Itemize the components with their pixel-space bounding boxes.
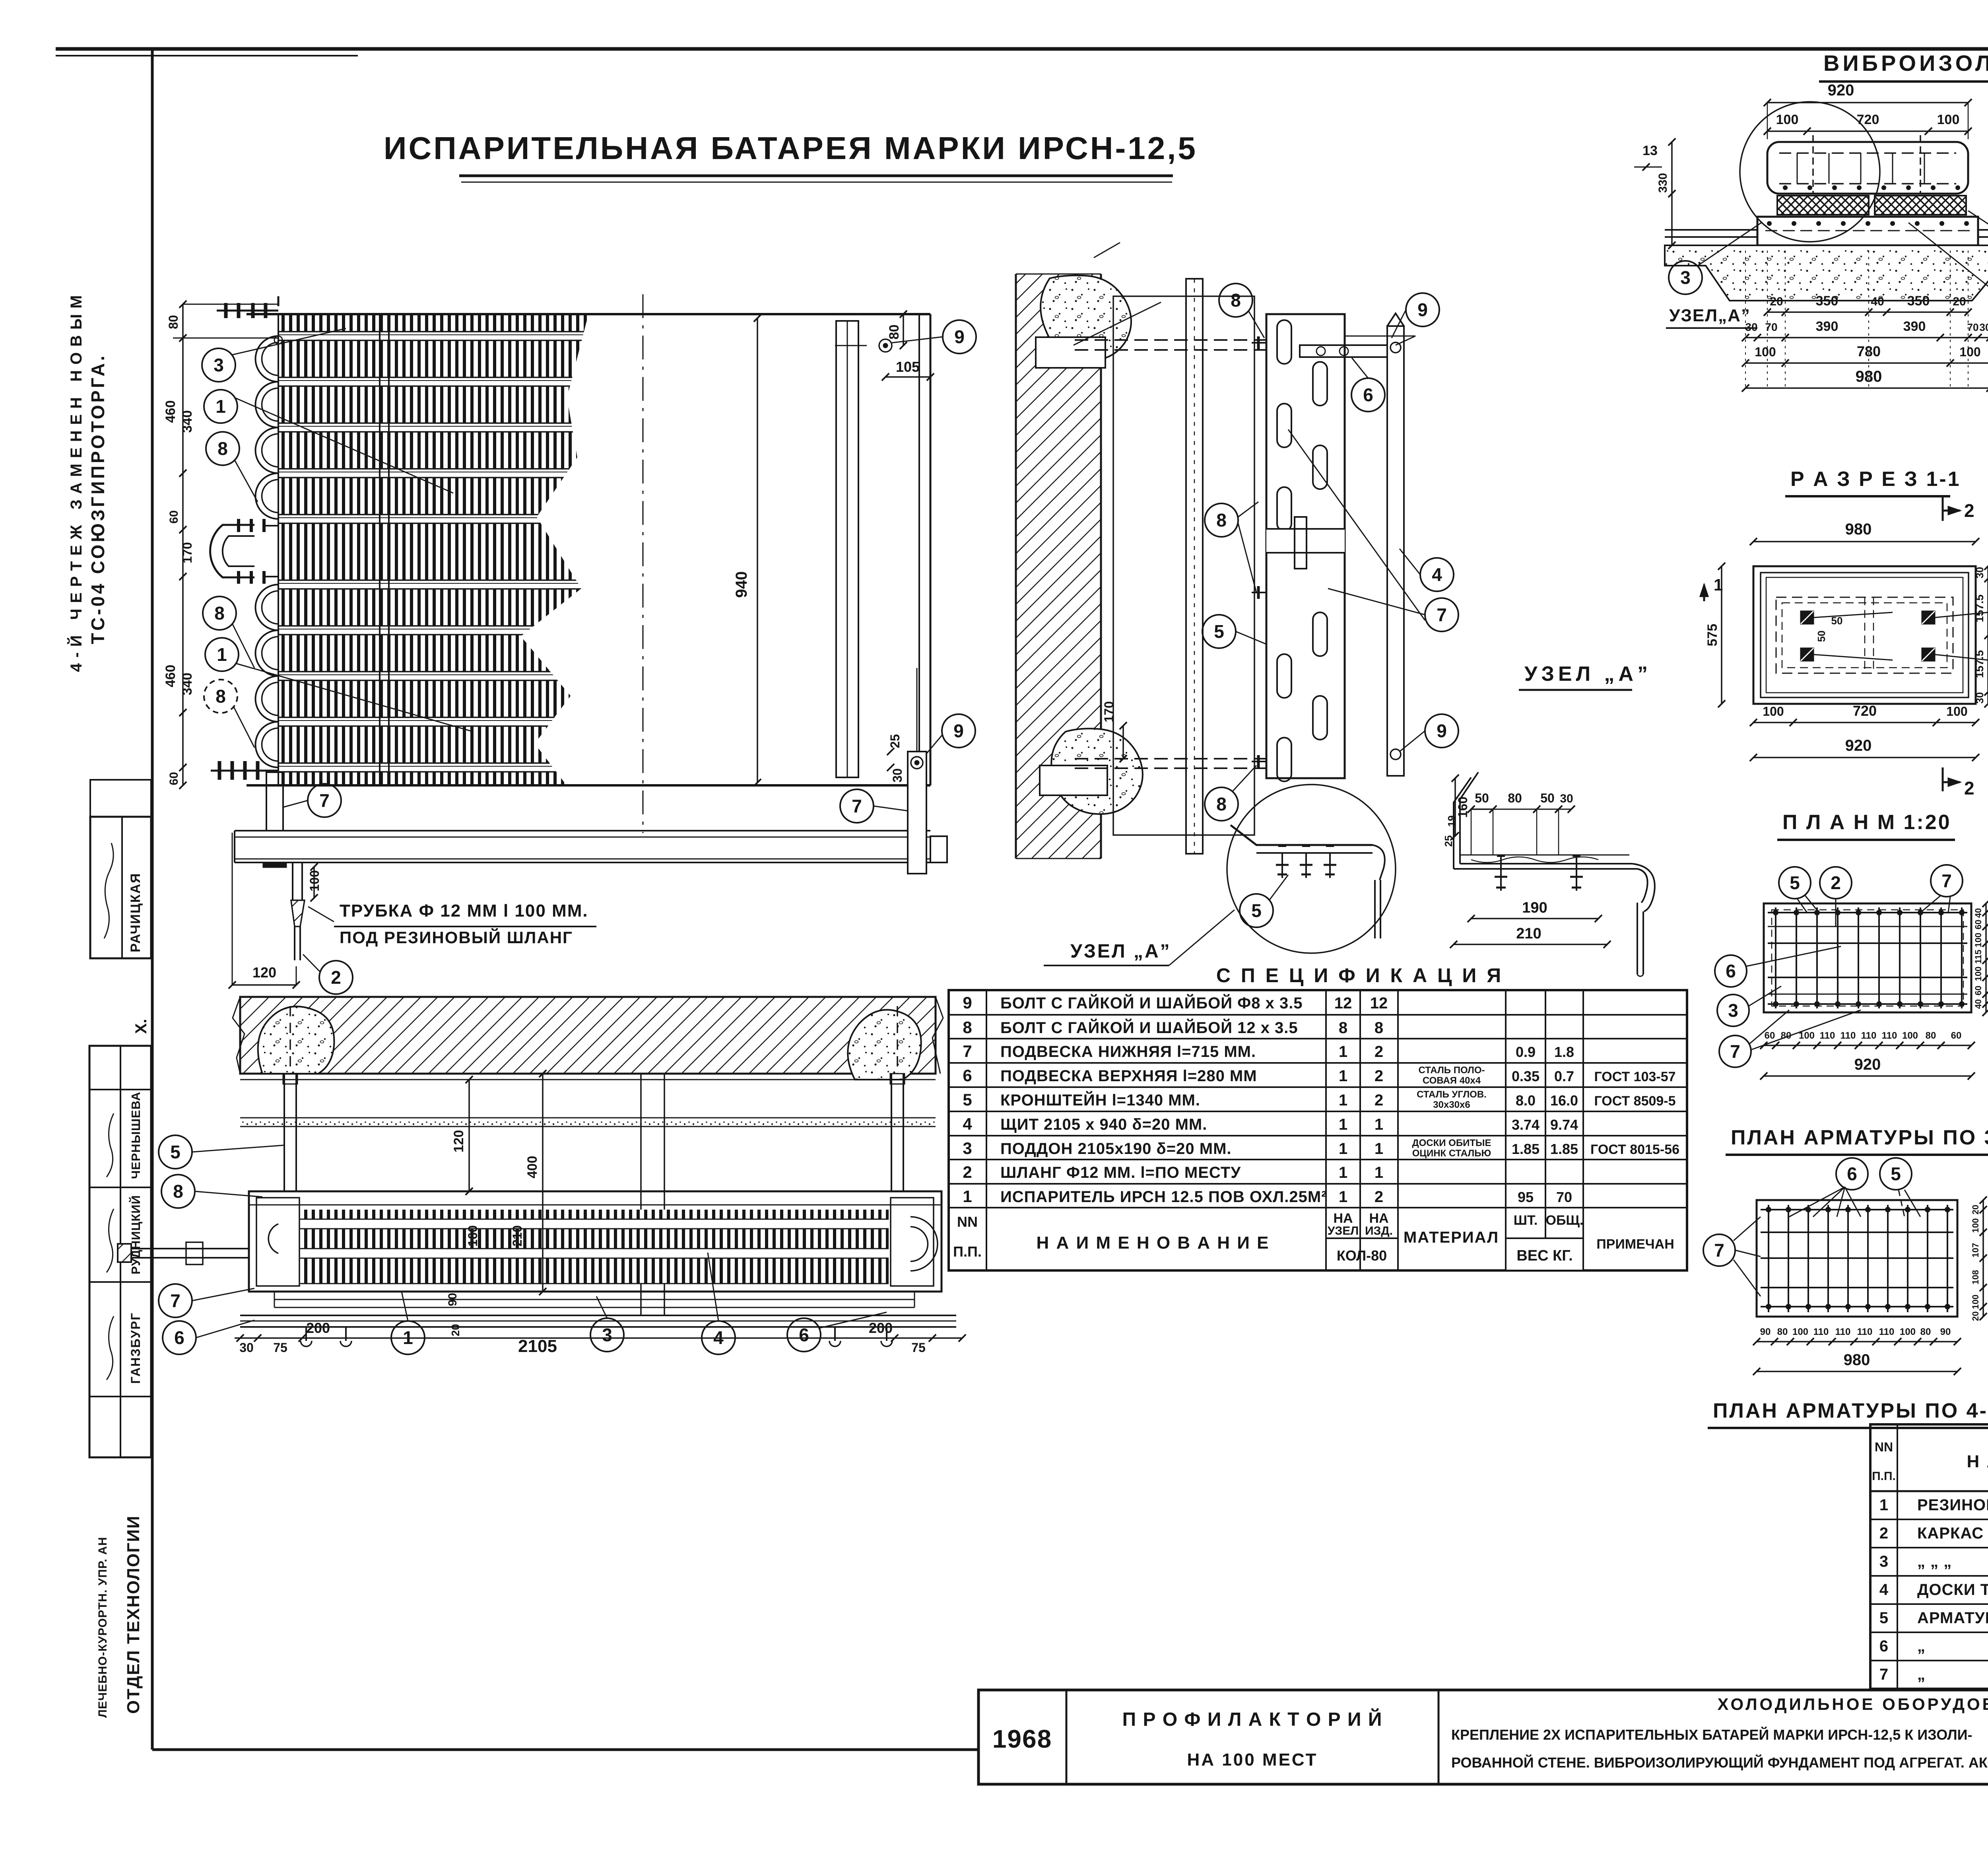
floor lines left of fnd1 [1665, 229, 1757, 231]
svg-text:3: 3 [1680, 267, 1691, 288]
svg-text:0.35: 0.35 [1512, 1068, 1540, 1084]
svg-text:200: 200 [306, 1320, 330, 1336]
svg-text:4: 4 [963, 1115, 972, 1133]
svg-text:115: 115 [1973, 950, 1983, 964]
svg-text:1: 1 [215, 396, 226, 417]
uzel A detail shelf [1454, 868, 1637, 870]
hanger bar right [1387, 326, 1404, 776]
shelf bolts [1281, 853, 1283, 878]
svg-text:П Р О Ф И Л А К Т О Р И Й: П Р О Ф И Л А К Т О Р И Й [1122, 1708, 1383, 1730]
svg-text:60: 60 [1973, 986, 1983, 995]
svg-text:НА: НА [1369, 1211, 1388, 1226]
svg-text:8: 8 [963, 1018, 972, 1037]
svg-text:1.85: 1.85 [1512, 1141, 1540, 1157]
svg-text:20: 20 [1971, 1205, 1980, 1214]
svg-text:780: 780 [1857, 343, 1881, 359]
svg-text:5: 5 [1879, 1609, 1888, 1627]
svg-text:6: 6 [174, 1327, 184, 1348]
fnd1 rebar dots [1783, 185, 1788, 190]
front view bottom drain fittings [218, 761, 221, 780]
svg-text:70: 70 [1556, 1189, 1572, 1205]
side view callout 8 [161, 1175, 195, 1208]
side view dim 120 [468, 1080, 470, 1191]
svg-text:КОЛ-80: КОЛ-80 [1337, 1247, 1387, 1264]
svg-text:100: 100 [1973, 967, 1983, 981]
fnd1 ground stipple [1665, 245, 1988, 301]
svg-text:УЗЕЛ„А”: УЗЕЛ„А” [1669, 306, 1751, 325]
svg-text:200: 200 [869, 1320, 893, 1336]
plan 1:20 right dims [1985, 903, 1987, 1012]
svg-text:3.74: 3.74 [1512, 1117, 1540, 1133]
svg-text:75: 75 [273, 1340, 287, 1355]
svg-text:60: 60 [167, 510, 181, 523]
svg-text:ПРИМЕЧАН: ПРИМЕЧАН [1596, 1237, 1674, 1252]
plan 1:20 dim 920 [1764, 1075, 1971, 1077]
svg-text:П.П.: П.П. [953, 1243, 982, 1260]
fnd1 bottom dims row3 [1745, 362, 1988, 364]
callout 7 slots [1425, 598, 1458, 631]
svg-text:400: 400 [525, 1156, 540, 1179]
svg-text:2: 2 [1375, 1067, 1383, 1085]
front view U jumper between groups [210, 525, 254, 577]
svg-text:1: 1 [1339, 1116, 1347, 1133]
side view callout 6b [787, 1318, 821, 1352]
svg-text:„ „: „ „ „ [1917, 1553, 1952, 1570]
spec table column lines [986, 990, 987, 1270]
svg-text:25: 25 [1442, 835, 1454, 847]
side view bottom dim chain [235, 1337, 962, 1339]
svg-text:100: 100 [1971, 1295, 1980, 1309]
svg-text:ГОСТ 8015-56: ГОСТ 8015-56 [1590, 1142, 1679, 1157]
svg-text:100: 100 [1973, 933, 1983, 948]
svg-text:3: 3 [602, 1325, 612, 1345]
svg-text:1: 1 [217, 644, 227, 665]
svg-text:8: 8 [1231, 290, 1241, 311]
plan 1:20 bottom dims [1764, 1045, 1971, 1046]
callout 7 under battery left [308, 784, 341, 817]
front view return bends lower [255, 585, 278, 630]
side view left end housing [256, 1198, 299, 1286]
svg-text:350: 350 [1907, 293, 1930, 309]
svg-text:25: 25 [888, 734, 902, 748]
svg-text:390: 390 [1816, 319, 1839, 334]
front view dim 105 [885, 376, 930, 378]
uzel A detail squiggle [1471, 857, 1598, 862]
front view top inlet fittings [278, 296, 280, 306]
svg-text:20: 20 [1953, 295, 1966, 308]
svg-text:ПЛАН АРМАТУРЫ ПО 4-4: ПЛАН АРМАТУРЫ ПО 4-4 [1713, 1399, 1988, 1422]
svg-text:3: 3 [963, 1139, 972, 1158]
svg-text:100: 100 [1763, 704, 1784, 719]
svg-text:„: „ [1917, 1666, 1926, 1683]
svg-text:9: 9 [1417, 299, 1428, 320]
uzel A shelf in circle [1231, 825, 1373, 845]
wall anchor pocket bottom [1040, 765, 1107, 795]
side view callout 7 [159, 1284, 192, 1317]
svg-text:120: 120 [252, 964, 276, 981]
front view dim 120 bottom [232, 833, 233, 985]
svg-text:340: 340 [180, 673, 195, 695]
svg-text:80: 80 [1920, 1327, 1931, 1337]
svg-text:1: 1 [1339, 1188, 1347, 1206]
svg-text:80: 80 [1777, 1327, 1788, 1337]
front view left collector [278, 314, 279, 785]
svg-text:МАТЕРИАЛ: МАТЕРИАЛ [1404, 1229, 1499, 1246]
svg-text:20: 20 [1770, 295, 1783, 308]
callout 7 lower right [840, 789, 874, 823]
svg-text:ХОЛОДИЛЬНОЕ ОБОРУДОВАНИЕ.: ХОЛОДИЛЬНОЕ ОБОРУДОВАНИЕ. [1718, 1695, 1988, 1713]
svg-text:РЕЗИНОВАЯ ПЛАСТИНА: РЕЗИНОВАЯ ПЛАСТИНА [1917, 1496, 1988, 1514]
material table outer [1870, 1424, 1988, 1689]
svg-text:АРМАТУРА Ф10 АІ: АРМАТУРА Ф10 АІ [1917, 1609, 1988, 1627]
svg-text:6: 6 [1879, 1637, 1888, 1655]
side view callout 1 [391, 1321, 425, 1354]
svg-text:75: 75 [911, 1340, 926, 1355]
callout 5 plate [1202, 615, 1236, 648]
svg-text:СТАЛЬ УГЛОВ.: СТАЛЬ УГЛОВ. [1417, 1089, 1487, 1100]
side view beam break right [932, 997, 943, 1074]
svg-text:4: 4 [713, 1327, 724, 1348]
razrez 1-1 section mark 2 top [1942, 497, 1944, 521]
uzel A detail bolts [1500, 855, 1502, 891]
svg-text:40: 40 [1973, 999, 1983, 1009]
svg-text:100: 100 [1902, 1030, 1918, 1041]
svg-text:9: 9 [953, 721, 964, 741]
plan 1:20 callouts left [1715, 955, 1747, 987]
front view lower hanger plate overlay [908, 752, 926, 874]
svg-text:920: 920 [1845, 737, 1872, 754]
material table rows [1870, 1519, 1988, 1520]
front view dim 940 [757, 318, 758, 783]
plan 3-3 callout 7 left [1703, 1234, 1735, 1266]
svg-text:6: 6 [1363, 385, 1373, 405]
razrez 1-1 inner dashed [1776, 597, 1953, 673]
plan 3-3 grid rect [1757, 1200, 1957, 1317]
svg-text:157.5: 157.5 [1973, 594, 1986, 622]
svg-text:4: 4 [1432, 564, 1442, 585]
front view drain tube [292, 862, 293, 900]
svg-text:ШТ.: ШТ. [1514, 1213, 1538, 1228]
svg-text:ИЗД.: ИЗД. [1365, 1224, 1393, 1237]
svg-text:„: „ [1917, 1637, 1926, 1655]
svg-text:980: 980 [1856, 368, 1882, 385]
plan 1:20 grid rect [1764, 903, 1971, 1012]
svg-text:60: 60 [1765, 1030, 1775, 1041]
fnd1 rubber pads crosshatch [1777, 196, 1869, 215]
razrez 1-1 dim 980 [1753, 541, 1976, 542]
svg-text:УЗЕЛ „А”: УЗЕЛ „А” [1524, 662, 1652, 686]
bracket top arm [1300, 345, 1387, 357]
svg-text:5: 5 [1214, 621, 1224, 642]
material table header [1870, 1490, 1988, 1492]
fnd1 anchor bolts [1812, 135, 1814, 194]
side view hanger rod left [283, 1074, 285, 1191]
svg-text:1.85: 1.85 [1550, 1141, 1578, 1157]
svg-text:60: 60 [1951, 1030, 1962, 1041]
wall anchor bolt top [1075, 339, 1266, 341]
svg-text:160: 160 [1456, 796, 1470, 818]
svg-text:Р А З Р Е З 1-1: Р А З Р Е З 1-1 [1790, 468, 1961, 491]
svg-text:9: 9 [963, 993, 972, 1012]
svg-text:210: 210 [510, 1225, 524, 1246]
svg-text:90: 90 [446, 1293, 459, 1306]
svg-text:2: 2 [963, 1163, 972, 1181]
wall break top [1094, 243, 1120, 258]
callout 6 arm [1351, 378, 1385, 412]
svg-text:1: 1 [1879, 1496, 1888, 1514]
svg-text:20: 20 [449, 1324, 462, 1336]
svg-text:РАЧИЦКАЯ: РАЧИЦКАЯ [128, 872, 143, 952]
side view fins band [300, 1210, 889, 1284]
svg-text:60: 60 [1973, 920, 1983, 929]
svg-text:80: 80 [1926, 1030, 1936, 1041]
svg-text:920: 920 [1828, 82, 1854, 99]
callout 8 bottom [1205, 787, 1238, 821]
svg-text:575: 575 [1705, 624, 1720, 647]
svg-text:NN: NN [957, 1214, 978, 1230]
svg-text:ГОСТ 8509-5: ГОСТ 8509-5 [1594, 1094, 1675, 1109]
svg-text:ЩИТ 2105 х 940 δ=20 ММ.: ЩИТ 2105 х 940 δ=20 ММ. [1000, 1116, 1207, 1133]
plan 1:20 dashed inset [1772, 910, 1963, 1006]
svg-text:П.П.: П.П. [1872, 1470, 1896, 1483]
svg-text:100: 100 [1755, 345, 1776, 359]
side view dim 400 [542, 1074, 544, 1292]
svg-text:3: 3 [1879, 1553, 1888, 1570]
fnd1 bottom dims row2 [1745, 337, 1988, 338]
svg-text:90: 90 [1940, 1327, 1951, 1337]
svg-text:НА 100 МЕСТ: НА 100 МЕСТ [1187, 1750, 1318, 1770]
svg-text:100: 100 [1937, 112, 1960, 127]
svg-text:720: 720 [1857, 112, 1879, 127]
svg-text:100: 100 [1959, 345, 1980, 359]
svg-text:Х.: Х. [132, 1019, 150, 1034]
svg-text:УЗЕЛ „А”: УЗЕЛ „А” [1070, 941, 1171, 962]
svg-text:ИСПАРИТЕЛЬНАЯ БАТАРЕЯ МАРКИ: ИСПАРИТЕЛЬНАЯ БАТАРЕЯ МАРКИ ИРСН-12,5 [384, 130, 1198, 166]
svg-text:ПОД РЕЗИНОВЫЙ ШЛАНГ: ПОД РЕЗИНОВЫЙ ШЛАНГ [340, 928, 573, 947]
svg-text:8: 8 [1216, 794, 1227, 814]
callout 8 mid lower [203, 596, 236, 630]
svg-text:7: 7 [319, 790, 330, 811]
svg-text:0.7: 0.7 [1554, 1068, 1574, 1084]
side view callout 6 [163, 1321, 196, 1354]
svg-text:ПЛАН АРМАТУРЫ ПО 3-3: ПЛАН АРМАТУРЫ ПО 3-3 [1731, 1126, 1988, 1149]
svg-text:170: 170 [1102, 701, 1116, 722]
svg-text:3: 3 [214, 355, 224, 375]
side view beam stone patch left [258, 1006, 334, 1074]
svg-text:УЗЕЛ: УЗЕЛ [1328, 1224, 1359, 1237]
svg-text:1: 1 [1375, 1164, 1383, 1181]
plan 3-3 mesh [1768, 1205, 1769, 1312]
svg-text:40: 40 [1973, 908, 1983, 918]
plan 3-3 dim 980 [1757, 1371, 1957, 1372]
svg-text:ЛЕЧЕБНО-КУРОРТН. УПР. АН: ЛЕЧЕБНО-КУРОРТН. УПР. АН [96, 1537, 109, 1718]
svg-text:50: 50 [1815, 631, 1827, 642]
fnd1 uzel circle [1740, 102, 1880, 242]
svg-text:8: 8 [1375, 1019, 1383, 1037]
svg-text:5: 5 [1891, 1164, 1901, 1184]
fnd1 left dims [1671, 142, 1673, 245]
title block outer [978, 1690, 1988, 1784]
front view dim 80 top right [903, 314, 904, 346]
plan 1:20 callouts top [1779, 867, 1811, 899]
front view bottom edge [247, 784, 930, 787]
side view beam soffit lines [240, 1079, 936, 1080]
svg-text:2: 2 [331, 967, 341, 988]
svg-text:210: 210 [1516, 925, 1541, 942]
svg-text:НА: НА [1333, 1211, 1353, 1226]
svg-text:РОВАННОЙ СТЕНЕ. ВИБРОИЗОЛИРУЮЩ: РОВАННОЙ СТЕНЕ. ВИБРОИЗОЛИРУЮЩИЙ ФУНДАМЕ… [1451, 1754, 1988, 1771]
side view beam stone patch right [848, 1010, 921, 1080]
svg-text:40: 40 [1871, 295, 1884, 308]
front view left dim chain [182, 304, 184, 785]
svg-text:8: 8 [215, 686, 226, 707]
svg-text:30: 30 [239, 1340, 254, 1355]
svg-text:100: 100 [307, 870, 322, 891]
svg-text:90: 90 [1760, 1327, 1771, 1337]
svg-text:8: 8 [1339, 1019, 1347, 1037]
svg-text:80: 80 [887, 324, 902, 340]
svg-text:13: 13 [1642, 143, 1658, 158]
svg-text:3: 3 [1728, 1000, 1738, 1021]
svg-text:190: 190 [1522, 899, 1547, 916]
wall stone patch top [1041, 276, 1131, 360]
svg-text:7: 7 [1714, 1240, 1724, 1261]
front view bolt top right [879, 339, 892, 352]
razrez 1-1 side marks 1 [1703, 585, 1705, 601]
svg-text:110: 110 [1840, 1030, 1856, 1041]
svg-text:110: 110 [1820, 1030, 1835, 1041]
uzel A detail dim 210 [1454, 944, 1607, 945]
svg-text:ОБЩ.: ОБЩ. [1546, 1213, 1584, 1228]
callout 8 lower dashed [204, 680, 237, 713]
svg-text:7: 7 [852, 796, 862, 816]
plan 3-3 callouts top [1836, 1158, 1868, 1190]
slotted bracket plate [1266, 314, 1345, 778]
svg-text:20: 20 [1971, 1311, 1980, 1321]
svg-text:340: 340 [180, 410, 195, 433]
material table columns [1897, 1424, 1898, 1689]
razrez 1-1 section mark 2 bottom [1942, 767, 1944, 791]
callout 9 bottom [1425, 714, 1458, 748]
svg-text:ВЕС КГ.: ВЕС КГ. [1516, 1247, 1573, 1264]
front view return bends upper [255, 336, 278, 382]
svg-text:30: 30 [1745, 321, 1757, 333]
svg-text:8: 8 [217, 438, 228, 459]
callout 9 lower right [942, 714, 975, 748]
wall panel outline [1113, 296, 1254, 835]
front view lower hanger plate [908, 752, 926, 874]
callout 8 mid [1205, 503, 1238, 537]
svg-text:110: 110 [1857, 1327, 1873, 1337]
callout 4 hanger [1420, 558, 1454, 591]
svg-text:110: 110 [1882, 1030, 1897, 1041]
svg-text:ВИБРОИЗОЛИРУЮЩИЙ ФУНДАМЕНТ: ВИБРОИЗОЛИРУЮЩИЙ ФУНДАМЕНТ [1823, 51, 1988, 76]
plan 3-3 right dims [1982, 1200, 1984, 1317]
svg-text:2: 2 [1831, 872, 1841, 893]
border frame top [56, 47, 1988, 51]
fnd1 bottom dim 980 [1745, 387, 1988, 389]
svg-text:ТРУБКА Ф 12 ММ l 100 ММ.: ТРУБКА Ф 12 ММ l 100 ММ. [340, 901, 588, 921]
svg-text:2: 2 [1879, 1525, 1888, 1542]
svg-text:5: 5 [1790, 872, 1800, 893]
side view bottom rail [240, 1315, 956, 1316]
razrez 1-1 anchor plates [1801, 611, 1813, 624]
border frame bottom left of title block [152, 1748, 978, 1751]
svg-text:7: 7 [1879, 1666, 1888, 1683]
svg-text:БОЛТ С ГАЙКОЙ И ШАЙБОЙ 12 х 3.: БОЛТ С ГАЙКОЙ И ШАЙБОЙ 12 х 3.5 [1000, 1018, 1298, 1037]
svg-text:80: 80 [1781, 1030, 1792, 1041]
svg-text:1: 1 [963, 1187, 972, 1206]
fnd1 rebar dashed [1779, 152, 1956, 154]
svg-text:330: 330 [1656, 173, 1670, 193]
svg-text:980: 980 [1844, 1351, 1870, 1369]
svg-text:30х30х6: 30х30х6 [1433, 1099, 1470, 1110]
svg-text:2: 2 [1964, 778, 1974, 798]
svg-text:Н А И М Е Н О В А Н И Е: Н А И М Е Н О В А Н И Е [1967, 1452, 1988, 1471]
svg-text:110: 110 [1813, 1327, 1829, 1337]
callout 9 top [1406, 293, 1439, 326]
svg-text:8: 8 [214, 603, 225, 624]
svg-text:2: 2 [1964, 500, 1974, 521]
svg-text:П Л А Н М 1:20: П Л А Н М 1:20 [1782, 811, 1951, 834]
svg-text:460: 460 [163, 665, 178, 688]
svg-text:19: 19 [1446, 816, 1458, 827]
svg-text:ПОДВЕСКА НИЖНЯЯ l=715 ММ.: ПОДВЕСКА НИЖНЯЯ l=715 ММ. [1000, 1043, 1256, 1061]
stamp box signatures [89, 1046, 151, 1457]
svg-text:6: 6 [1847, 1164, 1857, 1184]
svg-text:1968: 1968 [992, 1725, 1052, 1753]
svg-text:110: 110 [1879, 1327, 1895, 1337]
svg-text:80: 80 [166, 315, 181, 329]
svg-text:1: 1 [1339, 1067, 1347, 1085]
svg-text:95: 95 [1518, 1189, 1534, 1205]
bracket dim 160 right [1454, 778, 1456, 836]
svg-text:ЧЕРНЫШЕВА: ЧЕРНЫШЕВА [129, 1092, 143, 1179]
svg-text:ОЦИНК СТАЛЬЮ: ОЦИНК СТАЛЬЮ [1412, 1148, 1491, 1159]
fnd1 upper slab [1767, 142, 1968, 194]
side view inlet pipe [131, 1248, 249, 1249]
svg-text:1: 1 [403, 1327, 413, 1348]
wall stone patch bottom [1051, 728, 1143, 814]
front view fin block [278, 314, 592, 785]
callout 9 top right [943, 320, 976, 354]
svg-text:50: 50 [1475, 791, 1489, 805]
svg-text:7: 7 [1437, 604, 1447, 625]
svg-text:920: 920 [1854, 1056, 1881, 1073]
svg-text:70: 70 [1967, 321, 1979, 333]
svg-text:6: 6 [963, 1066, 972, 1085]
svg-text:ОТДЕЛ ТЕХНОЛОГИИ: ОТДЕЛ ТЕХНОЛОГИИ [124, 1515, 143, 1714]
svg-text:СОВАЯ 40х4: СОВАЯ 40х4 [1423, 1075, 1481, 1086]
svg-text:720: 720 [1853, 703, 1877, 719]
svg-text:110: 110 [1861, 1030, 1877, 1041]
svg-text:ГОСТ 103-57: ГОСТ 103-57 [1594, 1069, 1675, 1084]
side view middle straps [640, 1074, 642, 1315]
svg-text:100: 100 [1776, 112, 1799, 127]
svg-text:NN: NN [1875, 1440, 1893, 1454]
uzel A detail left flange [1460, 772, 1478, 864]
front view panel right edge [918, 314, 920, 785]
svg-text:1: 1 [1339, 1140, 1347, 1158]
svg-text:4-Й ЧЕРТЕЖ ЗАМЕНЕН НОВЫМ: 4-Й ЧЕРТЕЖ ЗАМЕНЕН НОВЫМ [67, 289, 85, 672]
side view right end housing [891, 1198, 934, 1286]
svg-text:8.0: 8.0 [1516, 1092, 1536, 1109]
svg-text:1: 1 [1339, 1043, 1347, 1061]
uzel A big circle [1227, 785, 1396, 953]
wall anchor bolt bottom [1075, 758, 1266, 759]
svg-text:1: 1 [1375, 1116, 1383, 1133]
svg-text:7: 7 [963, 1042, 972, 1061]
